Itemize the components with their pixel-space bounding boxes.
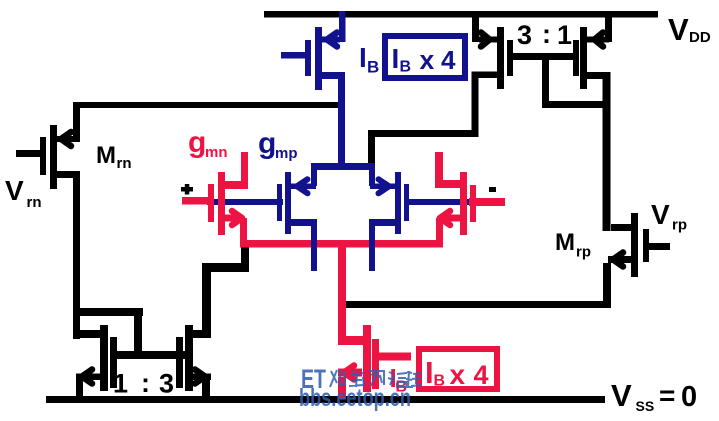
transistor top blue PMOS IB x 4 (281, 11, 346, 90)
svg-text:SS: SS (636, 398, 655, 414)
svg-text::: : (141, 368, 150, 398)
wire blue gate lead left pair (207, 199, 283, 205)
label g_mp (258, 127, 298, 162)
svg-text:I: I (425, 355, 434, 390)
wire red tail (240, 240, 443, 248)
svg-text:0: 0 (681, 381, 697, 413)
svg-text:rp: rp (672, 217, 687, 234)
wire M_rn drain down (73, 171, 80, 339)
transistor M_rp (603, 213, 670, 308)
svg-text:4: 4 (474, 360, 489, 390)
transistor M_rn (16, 102, 80, 189)
transistor 3:1 left PMOS (472, 11, 513, 89)
watermark line 2 bbs.eetop.cn (299, 384, 411, 412)
transistor red tail current source IB x 4 (338, 325, 411, 399)
label g_mn (188, 126, 228, 161)
label 1 : 3 (113, 368, 174, 399)
svg-text:I: I (392, 43, 400, 74)
label - input (489, 187, 496, 192)
wire red gate lead + input (182, 197, 209, 205)
svg-text:V: V (5, 175, 24, 206)
svg-text:4: 4 (441, 45, 456, 75)
svg-text:bbs.eetop.cn: bbs.eetop.cn (299, 384, 411, 412)
svg-text::: : (542, 19, 551, 49)
wire 1:3 gate line (110, 351, 185, 359)
svg-text:1: 1 (557, 20, 572, 50)
transistor g_mn right red NMOS (435, 152, 476, 247)
svg-text:V: V (651, 199, 670, 230)
power rail VDD (264, 11, 658, 18)
transistor 1:3 left NMOS (76, 325, 117, 398)
wire blue drain down to tail (338, 72, 345, 168)
svg-text:M: M (555, 229, 575, 256)
wire 3:1 gate line (513, 53, 610, 108)
svg-text:rn: rn (117, 155, 132, 172)
label 3 : 1 (517, 19, 572, 50)
transistor g_mn left red NMOS (208, 152, 248, 247)
svg-text:DD: DD (689, 29, 711, 46)
watermark line 1 ET forum (301, 364, 422, 394)
label V_rn (5, 175, 42, 211)
wire M_rn top to blue drain (73, 102, 344, 108)
svg-text:x: x (420, 45, 435, 75)
svg-text:1: 1 (113, 369, 128, 399)
svg-text:B: B (400, 59, 412, 76)
svg-text:B: B (434, 373, 446, 390)
svg-text:mp: mp (275, 145, 298, 162)
svg-text:g: g (188, 126, 206, 159)
svg-text:rn: rn (27, 194, 42, 211)
label M_rn (96, 142, 132, 172)
svg-text:3: 3 (159, 369, 174, 399)
svg-text:B: B (367, 58, 379, 77)
wire red gate lead - input (469, 198, 505, 206)
transistor 1:3 right NMOS (176, 325, 211, 398)
wire diode branch 1:3 (74, 308, 143, 358)
label + input (181, 184, 193, 195)
label V_rp (651, 199, 687, 234)
svg-text:V: V (668, 12, 689, 47)
transistor g_mp right blue PMOS (369, 166, 409, 271)
svg-text:V: V (611, 378, 632, 413)
label M_rp (555, 229, 591, 261)
box red IB x 4 (419, 349, 497, 390)
wire red tail down to source (338, 246, 346, 338)
wire 3:1 left drain to blue tail (368, 72, 479, 169)
svg-text:rp: rp (576, 244, 591, 261)
svg-text:I: I (359, 42, 367, 73)
wire blue tail (311, 163, 375, 170)
wire 3:1 right drain down to M_rp (603, 72, 611, 231)
svg-text:mn: mn (205, 144, 228, 161)
box blue IB x 4 (385, 36, 465, 78)
svg-text:M: M (96, 142, 116, 169)
transistor 3:1 right PMOS (573, 11, 612, 89)
label VSS = 0 (611, 378, 697, 414)
label VDD (668, 12, 711, 47)
wire blue gate lead right pair (404, 199, 478, 205)
wire 1:3 right drain riser (202, 245, 249, 338)
svg-text:=: = (659, 380, 675, 411)
power rail VSS (46, 396, 605, 403)
label red I_B (390, 363, 408, 396)
label blue I_B (359, 42, 379, 77)
wire M_rp source to red tail (344, 301, 611, 308)
svg-text:g: g (258, 127, 276, 160)
svg-text:3: 3 (517, 20, 532, 50)
svg-text:x: x (450, 359, 466, 390)
transistor g_mp left blue PMOS (277, 166, 317, 271)
